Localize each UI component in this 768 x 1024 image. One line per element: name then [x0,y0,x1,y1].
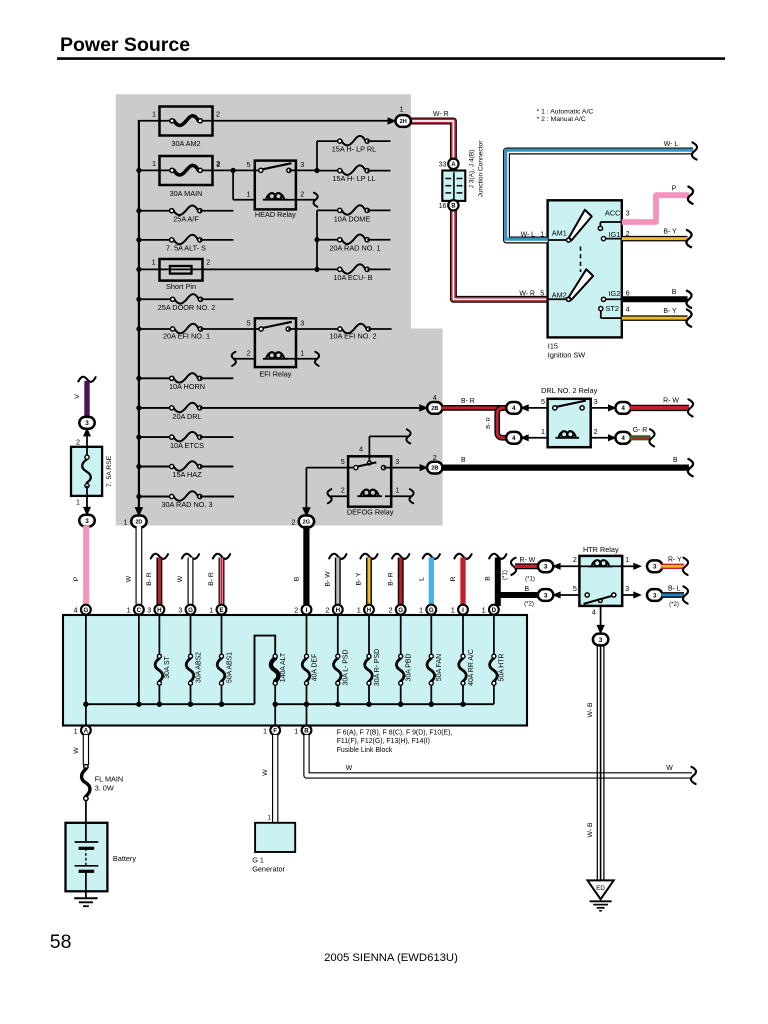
fuse 50A FAN [427,615,443,705]
svg-text:1: 1 [152,159,156,168]
svg-text:1: 1 [124,518,128,527]
wire DRL pin 2 to G- R [591,434,617,441]
svg-text:HEAD Relay: HEAD Relay [255,210,296,219]
wire L (fusible link G3) [418,554,440,605]
svg-text:15A H- LP RL: 15A H- LP RL [332,145,376,154]
wire HTR pin 3 to B- L [622,591,642,598]
svg-text:W- R: W- R [433,111,449,118]
wire W- L [506,141,697,240]
svg-text:20A RAD NO. 1: 20A RAD NO. 1 [329,244,380,253]
svg-text:3: 3 [178,606,182,615]
svg-text:A: A [451,162,456,168]
svg-text:7. 5A RSE: 7. 5A RSE [106,455,113,487]
svg-text:3: 3 [626,209,630,218]
svg-text:1: 1 [540,229,544,238]
svg-text:33: 33 [439,161,447,168]
connector H pin 3 (block top) [147,605,164,615]
svg-text:3: 3 [395,457,399,466]
svg-text:B- R: B- R [387,572,394,586]
svg-text:W: W [666,765,673,772]
ground (battery) [74,891,97,906]
svg-text:I: I [462,607,464,614]
connector C pin 1 (block top) [127,605,144,615]
ignition pin numbers [626,209,630,314]
svg-text:2: 2 [206,258,210,267]
svg-text:3: 3 [300,160,304,169]
svg-text:2005 SIENNA (EWD613U): 2005 SIENNA (EWD613U) [324,952,458,964]
relay EFI Relay [232,318,340,378]
svg-text:G: G [429,607,434,614]
svg-text:B: B [672,289,677,296]
arrow into 2B pin 4 [419,404,428,412]
svg-text:2: 2 [294,606,298,615]
connector G pin 3 (block top) [178,605,195,615]
svg-text:10A HORN: 10A HORN [169,382,205,391]
wire DEFOG pin 3 to 2B [391,464,428,471]
connector I pin 1 (block top) [451,605,468,615]
connector 2H [396,105,411,127]
svg-text:30A ABS2: 30A ABS2 [195,652,202,683]
wire B- R loop to DRL pin 1 [486,408,507,438]
svg-text:HTR Relay: HTR Relay [583,545,619,554]
fuse 30A PBD [396,615,412,705]
svg-text:4: 4 [626,304,630,313]
svg-text:2H: 2H [400,119,407,125]
wire W from 2D to block [126,526,139,604]
battery [66,801,137,892]
connector H pin 2 (block top) [326,605,343,615]
svg-text:B: B [461,457,466,464]
svg-text:Junction Connector: Junction Connector [477,140,484,198]
svg-text:5: 5 [247,319,251,328]
wire DRL pin 3 to R- W [591,404,617,411]
svg-text:5: 5 [540,289,544,298]
svg-text:W- R: W- R [519,291,535,298]
svg-text:W- L: W- L [521,231,536,238]
svg-text:20A DRL: 20A DRL [172,412,201,421]
svg-text:40A RR A/C: 40A RR A/C [468,649,475,686]
connector 4 (DRL pin 3) [615,402,630,414]
connector 3 (HTR pin 5) [538,589,580,601]
svg-text:D: D [492,607,497,614]
svg-text:E: E [219,607,223,614]
svg-text:30A MAIN: 30A MAIN [170,189,203,198]
svg-text:B- R: B- R [146,572,153,586]
svg-text:P: P [672,186,677,193]
svg-text:7. 5A ALT- S: 7. 5A ALT- S [166,244,206,253]
svg-text:W: W [126,575,133,582]
connector 3 (RSE bottom) [79,515,94,527]
svg-text:5: 5 [247,160,251,169]
wire B from 2G to block [293,526,306,605]
wire W- R [410,111,548,299]
wire HTR pin 1 to R- Y [622,563,642,570]
wire short pin to 10A ECU- B [254,210,340,272]
svg-text:R: R [450,576,457,581]
svg-text:2: 2 [341,486,345,495]
connector 3 (HTR pin 1) [647,560,662,572]
svg-text:3: 3 [594,397,598,406]
svg-text:10A ECU- B: 10A ECU- B [333,273,372,282]
svg-text:J 3(A), J 4(B): J 3(A), J 4(B) [469,150,476,189]
wire HTR pin 4 [592,606,605,634]
svg-text:2: 2 [247,348,251,357]
svg-text:Generator: Generator [252,865,285,874]
svg-text:* 1 : Automatic A/C: * 1 : Automatic A/C [537,109,594,116]
connector G pin 2 (block top) [388,605,405,615]
svg-text:P: P [73,576,80,581]
wire B- Y (fusible link H3) [356,554,378,605]
svg-text:1: 1 [395,486,399,495]
arrow into 3 (RSE bottom) [83,507,91,516]
svg-text:50A FAN: 50A FAN [436,654,443,681]
svg-text:2: 2 [76,437,80,446]
svg-text:30A L- PSD: 30A L- PSD [343,649,350,685]
svg-text:58: 58 [50,931,72,953]
svg-text:B- L: B- L [668,585,681,592]
ignition switch I15 [548,200,622,359]
svg-text:140A ALT: 140A ALT [280,652,287,682]
svg-text:F 6(A), F 7(B), F 8(C), F 9(D): F 6(A), F 7(B), F 8(C), F 9(D), F10(E), [337,730,453,737]
svg-text:IG1: IG1 [609,230,621,239]
wire W from B [307,735,697,784]
svg-text:4: 4 [74,606,78,615]
fuse 30A R- PSD [365,615,381,705]
wire W from F [262,735,275,823]
svg-text:B: B [525,586,530,593]
svg-text:I: I [306,607,308,614]
svg-text:L: L [418,577,425,581]
fuse 25A A/F [139,206,233,224]
svg-text:1: 1 [625,555,629,564]
wire B- R (fusible link G2) [387,554,409,605]
svg-text:Battery: Battery [113,854,136,863]
svg-text:30A ST: 30A ST [164,655,171,678]
svg-text:4: 4 [621,405,625,412]
svg-text:2: 2 [388,606,392,615]
fuse 10A ETCS [139,432,233,450]
wire B- R (fusible link H) [146,554,168,605]
wire R- W to HTR [511,557,539,583]
fusible link FL MAIN 3. 0W [82,765,124,801]
relay DRL NO. 2 Relay [541,386,598,447]
fuse 20A EFI NO. 1 [139,324,255,341]
svg-text:B- R: B- R [208,572,215,586]
svg-text:Fusible Link Block: Fusible Link Block [337,747,393,754]
connector 2G [291,516,314,528]
svg-text:3: 3 [653,564,657,571]
svg-text:V: V [74,394,81,399]
svg-text:3: 3 [147,606,151,615]
svg-text:30A PBD: 30A PBD [406,653,413,681]
fuse 50A ABS1 [217,615,233,705]
svg-text:3: 3 [544,564,548,571]
svg-text:10A ETCS: 10A ETCS [170,441,204,450]
svg-text:B: B [304,728,309,735]
svg-text:2: 2 [326,606,330,615]
svg-text:ED: ED [596,885,605,892]
svg-text:1: 1 [541,427,545,436]
wire B- R to DRL relay [441,398,507,408]
svg-text:1: 1 [482,606,486,615]
svg-text:25A A/F: 25A A/F [173,214,199,223]
svg-text:2: 2 [216,110,220,119]
arrow into 2G [302,507,311,517]
junction connector J 3(A), J 4(B) [439,140,485,211]
gray relay-box panel [116,94,443,525]
svg-text:30A RAD NO. 3: 30A RAD NO. 3 [161,500,212,509]
fuse 7. 5A RSE [71,436,113,508]
svg-text:W: W [177,575,184,582]
svg-text:B: B [293,576,300,581]
svg-text:1: 1 [127,606,131,615]
svg-text:1: 1 [399,105,403,114]
svg-text:Ignition SW: Ignition SW [548,351,585,360]
wire DEFOG pin 4 [369,429,410,461]
svg-text:20A EFI NO. 1: 20A EFI NO. 1 [163,331,210,340]
connector 2B pin 4 [427,393,442,414]
connector E pin 1 (block top) [209,605,226,615]
svg-text:30A R- PSD: 30A R- PSD [374,649,381,686]
svg-text:G: G [83,607,88,614]
wire main bus [136,121,141,513]
connector G pin 1 (block top) [419,605,436,615]
title Power Source [57,34,725,59]
svg-text:2D: 2D [135,519,142,525]
wire B from 2B [441,457,693,476]
fuse 15A H- LP RL [317,136,391,154]
svg-text:ST2: ST2 [606,304,619,313]
wire B- Y from IG1 [622,228,692,247]
fuse 20A DRL [139,403,422,421]
svg-text:1: 1 [74,726,78,735]
svg-text:(*1): (*1) [503,570,509,580]
svg-text:B- R: B- R [486,417,492,429]
svg-text:R- Y: R- Y [668,557,682,564]
svg-text:G- R: G- R [633,427,648,434]
connector D pin 1 (block top) [482,605,499,615]
svg-text:50A ABS1: 50A ABS1 [226,652,233,683]
fuse 30A L- PSD [334,615,350,705]
svg-text:3. 0W: 3. 0W [95,784,114,793]
svg-text:B- Y: B- Y [356,572,363,586]
svg-text:2: 2 [300,189,304,198]
svg-text:2: 2 [573,555,577,564]
connector 3 (HTR pin 3) [647,589,662,601]
connector 2B pin 2 [427,453,442,474]
svg-text:W: W [346,765,353,772]
svg-text:40A DEF: 40A DEF [311,654,318,682]
svg-text:5: 5 [541,397,545,406]
fuse 10A ECU- B [333,264,390,282]
arrow into 2D [135,507,144,517]
connector H pin 1 (block top) [357,605,374,615]
relay HTR Relay [573,545,629,606]
wire W (fusible link G) [177,554,199,605]
fuse 140A ALT [271,652,287,685]
short pin [139,258,254,291]
wire V [74,377,96,418]
svg-text:1: 1 [152,110,156,119]
fuse 30A RAD NO. 3 [139,491,234,509]
svg-text:W: W [73,747,80,754]
svg-text:2: 2 [291,518,295,527]
svg-text:DRL NO. 2 Relay: DRL NO. 2 Relay [541,386,597,395]
relay HEAD Relay [217,160,318,219]
wire B (fusible link D) [484,554,539,606]
svg-text:25A DOOR NO. 2: 25A DOOR NO. 2 [158,303,216,312]
svg-text:1: 1 [294,726,298,735]
connector G pin 4 (block top) [74,605,91,615]
svg-text:G 1: G 1 [252,855,264,864]
svg-text:4: 4 [433,393,437,402]
wire DEFOG pin 2 stub [328,489,349,503]
svg-text:G: G [398,607,403,614]
svg-text:EFI Relay: EFI Relay [259,369,291,378]
svg-text:AM1: AM1 [552,229,567,238]
svg-text:B: B [451,203,456,209]
fuse 20A RAD NO. 1 [317,235,391,253]
wire W from A [73,735,86,765]
fuse 15A H- LP LL [317,165,391,183]
svg-text:H: H [367,607,372,614]
svg-text:(*2): (*2) [524,601,534,607]
svg-text:5: 5 [341,457,345,466]
block internal bus left [83,615,254,726]
svg-text:2G: 2G [303,519,310,525]
connector 3 (HTR pin 4) [593,634,608,646]
svg-text:I15: I15 [548,342,558,351]
fusible link block note [337,730,453,754]
ground ED [588,880,614,910]
svg-text:B- Y: B- Y [663,228,677,235]
svg-text:W- L: W- L [664,141,679,148]
svg-text:H: H [157,607,162,614]
connector B pin 1 (block bottom) [294,725,311,735]
fuse 30A AM2 [138,107,397,149]
wire DEFOG pin 5 to 2G [306,468,348,512]
svg-text:3: 3 [653,592,657,599]
svg-text:B- R: B- R [461,398,475,405]
svg-text:1: 1 [209,606,213,615]
connector 4 (DRL pin 5) [506,402,547,414]
wire P to fusible link block [73,525,86,604]
svg-text:B- Y: B- Y [663,308,677,315]
svg-text:W: W [262,769,269,776]
connector 2D [124,516,147,528]
svg-text:H: H [336,607,341,614]
svg-text:F11(F), F12(G), F13(H), F14(I): F11(F), F12(G), F13(H), F14(I) [337,738,430,745]
note A/C variants [537,109,594,124]
svg-text:6: 6 [626,288,630,297]
svg-text:W- B: W- B [587,822,594,837]
svg-text:5: 5 [573,584,577,593]
fuse 30A ST [155,615,171,705]
svg-text:1: 1 [152,258,156,267]
svg-text:1: 1 [357,606,361,615]
wire DEFOG pin 1 stub [385,489,414,503]
wire B- R (fusible link E) [208,554,230,605]
wire B to HTR pin 5 label [524,586,534,607]
wire 140A ALT feed [255,636,276,705]
svg-text:2: 2 [433,453,437,462]
fuse 30A ABS2 [186,615,202,705]
svg-text:10A DOME: 10A DOME [334,214,371,223]
fuse 25A DOOR NO. 2 [139,294,234,312]
svg-text:3: 3 [85,420,89,427]
svg-text:C: C [137,607,142,614]
svg-text:3: 3 [300,319,304,328]
wire B from IG2 [622,289,692,308]
svg-text:Power Source: Power Source [60,34,190,56]
wire R (fusible link I2) [450,554,472,605]
fuse 10A EFI NO. 2 [329,324,391,341]
svg-text:2: 2 [594,427,598,436]
relay DEFOG Relay [341,445,399,517]
svg-text:1: 1 [263,726,267,735]
connector F pin 1 (block bottom) [263,725,280,735]
svg-text:B: B [673,457,678,464]
svg-text:3: 3 [544,592,548,599]
connector 4 (DRL pin 2) [615,432,630,444]
connector I pin 2 (block top) [294,605,311,615]
svg-text:DEFOG Relay: DEFOG Relay [347,507,394,516]
svg-text:4: 4 [512,405,516,412]
fuse 50A HTR [490,615,506,705]
fusible link block [63,615,527,726]
svg-text:4: 4 [621,435,625,442]
svg-text:3: 3 [85,518,89,525]
svg-text:B- W: B- W [324,571,331,587]
svg-text:16: 16 [439,203,447,210]
svg-text:15A H- LP LL: 15A H- LP LL [332,174,375,183]
connector A pin 1 (block bottom) [74,725,91,735]
svg-text:50A HTR: 50A HTR [499,654,506,682]
svg-text:G: G [188,607,193,614]
connector 3 (HTR pin 2) [538,560,580,572]
svg-text:10A EFI NO. 2: 10A EFI NO. 2 [329,331,376,340]
wire P from ACC [622,186,693,222]
svg-text:30A AM2: 30A AM2 [171,139,200,148]
svg-text:IG2: IG2 [609,289,621,298]
svg-text:B: B [484,576,491,581]
wire R- W [630,397,694,416]
wire B- Y from ST2 [622,308,692,327]
svg-text:AM2: AM2 [552,291,567,300]
svg-text:FL MAIN: FL MAIN [95,775,124,784]
fuse 40A RR A/C [459,615,475,705]
svg-text:3: 3 [599,637,603,644]
svg-text:2B: 2B [431,466,438,472]
wire H-LP feed [314,141,319,173]
fuse 15A HAZ [139,461,233,479]
fuse 30A MAIN [139,156,255,198]
fuse 40A DEF [302,615,318,705]
svg-text:(*1): (*1) [525,577,535,583]
svg-text:A: A [84,728,89,735]
wire W- B [587,645,604,880]
svg-text:1: 1 [300,348,304,357]
fuse 7. 5A ALT- S [139,235,233,253]
svg-text:1: 1 [76,498,80,507]
svg-text:1: 1 [451,606,455,615]
fuse 10A DOME [317,205,391,223]
svg-text:(*2): (*2) [669,602,679,608]
svg-text:4: 4 [512,435,516,442]
svg-text:2: 2 [217,160,221,169]
connector 4 (DRL pin 1) [506,432,547,444]
svg-text:3: 3 [625,584,629,593]
